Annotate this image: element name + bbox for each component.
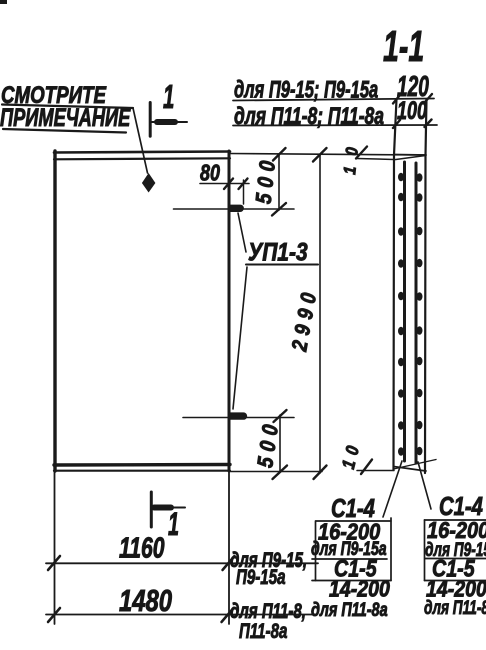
dim 10 top tick	[356, 147, 367, 159]
diamond mark	[142, 173, 156, 193]
section mark top: thick arrow body	[157, 119, 175, 125]
dim 80 tick right	[239, 179, 248, 190]
strip bottom edge	[394, 467, 427, 472]
panel bottom edge thin	[54, 470, 230, 472]
mesh dots left bar	[398, 173, 404, 456]
dim 80 extension vertical	[243, 180, 245, 204]
svg-text:для П11-8: для П11-8	[424, 597, 486, 619]
mesh bar right	[415, 163, 418, 463]
left callout separator	[312, 558, 387, 560]
strip top wedge	[394, 156, 426, 160]
svg-text:80: 80	[200, 160, 220, 186]
dim 80 line	[200, 183, 249, 185]
top hook УП1-3	[229, 205, 244, 212]
svg-text:1: 1	[168, 506, 179, 542]
left callout box left	[315, 521, 317, 581]
section mark bottom: arrow line	[152, 507, 185, 509]
panel left edge	[53, 151, 56, 471]
leader strip to left callout	[383, 461, 402, 517]
top hook leg line	[174, 208, 295, 210]
row2 line	[233, 124, 437, 127]
dim 10 bottom extension	[357, 470, 394, 472]
right callout box top	[425, 519, 486, 521]
svg-text:П9-15а: П9-15а	[236, 564, 286, 588]
bottom extension line from panel	[229, 471, 322, 473]
dim 2990 tick bottom	[314, 466, 327, 480]
dim 500 top tick bottom	[272, 203, 286, 216]
section strip right edge	[425, 99, 427, 473]
dim 1160 tick left	[48, 556, 60, 570]
panel bottom edge thick	[54, 463, 230, 467]
left callout box right	[390, 518, 392, 581]
left extension below panel	[54, 471, 56, 624]
label УП1-3 underline	[246, 263, 318, 265]
row1 tick left	[393, 95, 400, 104]
mesh bar left	[403, 162, 406, 461]
section mark top: arrow line	[151, 121, 187, 123]
svg-text:для П11-8а: для П11-8а	[311, 599, 388, 620]
mesh dots right bar	[417, 173, 423, 455]
svg-text:1160: 1160	[119, 532, 165, 564]
strip bottom wedge	[394, 460, 437, 470]
panel top edge thick	[54, 152, 230, 153]
row2 tick left	[393, 120, 400, 128]
bottom hook УП1-3	[229, 412, 247, 419]
leader hook to УП1-3 label	[238, 213, 246, 252]
bottom hook leg line	[183, 417, 294, 419]
note underline 2	[3, 129, 126, 133]
right callout box bottom	[425, 580, 486, 582]
section strip left edge	[394, 99, 397, 470]
svg-text:1480: 1480	[119, 583, 173, 618]
svg-text:100: 100	[397, 96, 427, 125]
right callout box left	[424, 520, 426, 581]
row1 line	[233, 99, 434, 101]
leader УП1-3 label to bottom hook	[233, 267, 247, 409]
left callout box bottom	[312, 580, 391, 582]
leader note to diamond	[133, 108, 148, 173]
svg-text:УП1-3: УП1-3	[248, 238, 308, 266]
section mark top: vertical bar	[149, 103, 152, 137]
panel right edge	[228, 151, 231, 471]
dim 1160 tick right	[223, 556, 235, 570]
dim 500 top line	[278, 154, 280, 210]
dim 2990 tick top	[313, 148, 327, 162]
strip top edge	[394, 154, 427, 157]
dim 80 tick left	[224, 179, 233, 190]
dim 1160 line	[46, 562, 318, 564]
note underline 1	[2, 105, 133, 109]
section mark bottom: vertical bar	[150, 492, 153, 527]
dim 1480 tick right	[222, 608, 234, 622]
left callout box top	[316, 520, 391, 522]
dim 10 bottom tick	[361, 460, 372, 475]
dim 500 top tick top	[273, 148, 286, 161]
dim 500 bottom tick bottom	[273, 466, 288, 480]
row2 tick right	[425, 120, 432, 128]
right callout separator	[425, 558, 486, 560]
dim 500 bottom tick top	[274, 410, 287, 422]
svg-text:П11-8а: П11-8а	[239, 618, 287, 642]
svg-text:1: 1	[163, 78, 174, 115]
svg-text:14-200: 14-200	[329, 576, 390, 602]
top extension line from panel top	[229, 154, 426, 156]
dim 2990 line	[319, 155, 321, 474]
dim 500 bottom line	[279, 415, 281, 472]
leader strip to right callout	[418, 462, 431, 509]
panel top edge thin	[54, 158, 230, 159]
dim 10 top second extension	[357, 159, 394, 160]
row1 tick right	[425, 94, 432, 102]
svg-text:ПРИМЕЧАНИЕ: ПРИМЕЧАНИЕ	[0, 103, 131, 132]
dim 1480 tick left	[48, 608, 60, 622]
right extension below panel	[228, 471, 230, 624]
sheet corner mark top-left	[0, 0, 7, 4]
svg-text:1-1: 1-1	[383, 21, 424, 71]
dim 1480 line	[46, 614, 315, 616]
section mark bottom: thick arrow body	[154, 505, 171, 511]
